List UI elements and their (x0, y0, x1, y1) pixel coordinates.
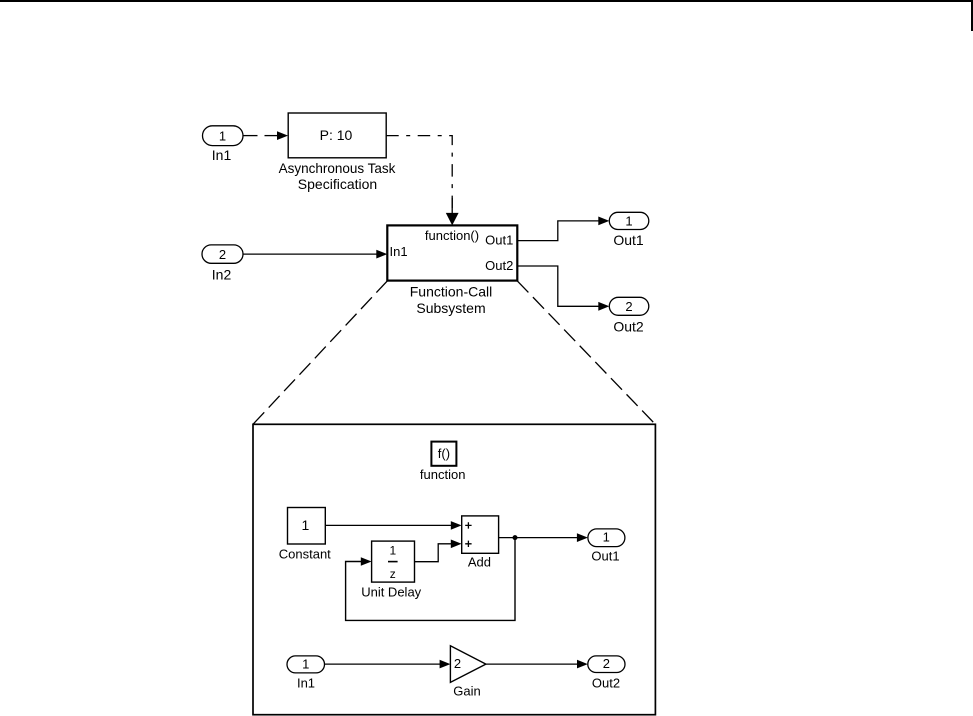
expansion dashed line right (517, 281, 655, 424)
svg-text:2: 2 (603, 656, 610, 671)
wire Unit Delay to Add (415, 540, 462, 562)
window top border (0, 0, 973, 2)
block Gain (450, 646, 486, 699)
svg-text:P: 10: P: 10 (320, 127, 353, 143)
svg-text:Gain: Gain (453, 684, 480, 699)
svg-text:function(): function() (425, 228, 479, 243)
svg-text:Out1: Out1 (591, 548, 619, 563)
outport Out2 (inner) (588, 656, 625, 691)
svg-text:In1: In1 (297, 676, 315, 691)
subsystem contents frame (253, 424, 655, 714)
svg-text:In1: In1 (212, 147, 232, 163)
svg-text:2: 2 (625, 299, 632, 314)
inport In1 (203, 126, 244, 163)
outport Out1 (609, 212, 649, 248)
svg-text:Specification: Specification (298, 176, 377, 192)
block Function-Call Subsystem (387, 225, 517, 316)
dash-dot function-call wire (386, 136, 458, 226)
expansion dashed line left (253, 281, 387, 424)
svg-text:Add: Add (468, 555, 491, 570)
outport Out2 (609, 297, 649, 334)
svg-text:2: 2 (219, 247, 226, 262)
svg-text:f(): f() (438, 446, 450, 461)
block Add (462, 516, 499, 570)
svg-text:Out2: Out2 (613, 318, 644, 334)
svg-text:Out2: Out2 (485, 258, 513, 273)
svg-text:1: 1 (603, 529, 610, 544)
svg-text:Unit Delay: Unit Delay (361, 584, 421, 599)
wire In1 to Asynchronous Task Specification (243, 131, 288, 140)
svg-text:In2: In2 (212, 266, 232, 282)
wire Gain to Out2 (486, 660, 588, 669)
svg-text:Function-Call: Function-Call (410, 284, 492, 300)
svg-text:1: 1 (302, 517, 310, 533)
inport In2 (202, 245, 243, 283)
svg-text:function: function (420, 467, 466, 482)
window right border fragment (971, 0, 973, 31)
svg-text:Out2: Out2 (592, 676, 620, 691)
svg-text:1: 1 (389, 544, 396, 558)
svg-text:1: 1 (625, 213, 632, 228)
block Asynchronous Task Specification (P: 10) (279, 113, 396, 192)
wire In1 to Gain (325, 660, 451, 669)
feedback wire Add output to Unit Delay input (346, 538, 515, 621)
wire Add to Out1 with junction (499, 533, 588, 542)
svg-text:Subsystem: Subsystem (416, 300, 485, 316)
svg-text:Out1: Out1 (485, 232, 513, 247)
wire Constant to Add (325, 521, 461, 530)
svg-text:Out1: Out1 (613, 232, 644, 248)
wire subsystem Out2 to outport Out2 (517, 266, 609, 311)
block Constant (279, 508, 331, 562)
svg-text:2: 2 (454, 656, 461, 671)
svg-text:Constant: Constant (279, 546, 331, 561)
svg-text:1: 1 (219, 128, 226, 143)
svg-text:Asynchronous Task: Asynchronous Task (279, 161, 396, 176)
wire In2 to subsystem (243, 250, 387, 259)
outport Out1 (inner) (588, 529, 625, 563)
svg-text:In1: In1 (390, 244, 408, 259)
wire subsystem Out1 to outport Out1 (517, 217, 609, 241)
svg-text:z: z (390, 567, 396, 581)
block Unit Delay (361, 541, 421, 599)
block f() trigger port (420, 442, 466, 482)
svg-text:1: 1 (302, 656, 309, 671)
inport In1 (inner) (287, 656, 325, 691)
